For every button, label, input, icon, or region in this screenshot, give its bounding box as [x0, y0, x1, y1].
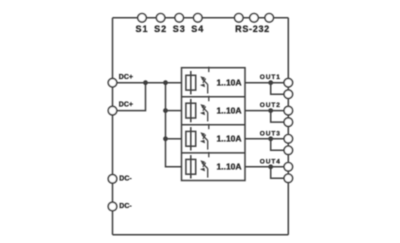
svg-text:1..10A: 1..10A	[217, 105, 242, 115]
terminal RS-232 pin2	[250, 13, 259, 22]
wire OUT3	[245, 138, 288, 140]
node OUT3	[268, 136, 273, 141]
terminal S1	[138, 13, 147, 22]
terminal DC+ 2	[108, 106, 117, 115]
wire left edge	[112, 18, 114, 235]
terminal OUT3 b	[284, 146, 293, 155]
wire OUT2	[245, 110, 288, 112]
terminal OUT4 b	[284, 174, 293, 183]
node bus ch2	[163, 108, 168, 113]
terminal DC- 2	[108, 202, 117, 211]
svg-text:OUT2: OUT2	[260, 102, 281, 109]
wire OUT1 branch	[271, 83, 289, 95]
terminal OUT1 a	[284, 78, 293, 87]
node bus ch1	[163, 80, 168, 85]
svg-text:1..10A: 1..10A	[217, 78, 242, 88]
node DC+ join	[143, 80, 148, 85]
terminal S4	[194, 13, 203, 22]
wire OUT4	[245, 166, 288, 168]
switch SW2	[200, 96, 209, 122]
wire right edge	[287, 18, 289, 235]
terminal DC- 1	[108, 175, 117, 184]
switch SW4	[200, 152, 209, 178]
junction dots	[143, 80, 273, 169]
svg-text:DC-: DC-	[119, 203, 132, 210]
svg-text:RS-232: RS-232	[235, 24, 270, 34]
divider row2/row3	[182, 124, 246, 126]
wire OUT4 branch	[271, 167, 289, 179]
svg-text:DC+: DC+	[119, 102, 133, 109]
node bus ch3	[163, 136, 168, 141]
terminal OUT3 a	[284, 135, 293, 144]
terminal OUT2 b	[284, 118, 293, 127]
terminal S2	[156, 13, 165, 22]
svg-text:OUT1: OUT1	[260, 74, 281, 81]
svg-text:S4: S4	[191, 24, 204, 34]
fuse F3	[186, 127, 196, 150]
wire vertical distribution bus	[166, 83, 182, 167]
svg-text:1..10A: 1..10A	[217, 162, 242, 172]
svg-text:DC-: DC-	[119, 175, 132, 182]
wire branch ch3	[166, 138, 182, 140]
fuse F1	[186, 71, 196, 94]
wire OUT2 branch	[271, 111, 289, 123]
breaker module box	[182, 68, 246, 181]
divider row1/row2	[182, 96, 246, 98]
node OUT4	[268, 164, 273, 169]
terminal RS-232 pin1	[235, 13, 244, 22]
svg-text:1..10A: 1..10A	[217, 134, 242, 144]
terminals	[108, 13, 292, 210]
wire DC+ bus ch1	[113, 82, 182, 84]
fuse F4	[186, 155, 196, 178]
terminal DC+ 1	[108, 78, 117, 87]
node OUT1	[268, 80, 273, 85]
wire OUT3 branch	[271, 139, 289, 151]
divider row3/row4	[182, 152, 246, 154]
svg-text:S1: S1	[135, 24, 148, 34]
svg-text:DC+: DC+	[119, 74, 133, 81]
wire branch ch2	[166, 110, 182, 112]
svg-text:OUT3: OUT3	[260, 130, 281, 137]
terminal RS-232 pin3	[265, 13, 274, 22]
wire DC+ second terminal loop	[113, 83, 146, 111]
fuse F2	[186, 99, 196, 122]
node OUT2	[268, 108, 273, 113]
switch SW3	[200, 124, 209, 150]
switch SW1	[200, 67, 209, 94]
svg-text:S3: S3	[173, 24, 186, 34]
svg-text:S2: S2	[154, 24, 167, 34]
wire top edge	[113, 17, 289, 19]
terminal OUT4 a	[284, 163, 293, 172]
terminal OUT2 a	[284, 106, 293, 115]
terminal OUT1 b	[284, 90, 293, 99]
svg-text:OUT4: OUT4	[260, 158, 281, 165]
terminal S3	[175, 13, 184, 22]
wire OUT1	[245, 82, 288, 84]
wire bottom edge	[113, 234, 289, 236]
